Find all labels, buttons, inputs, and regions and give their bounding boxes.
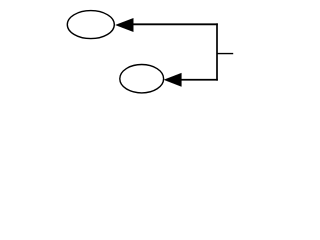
arrowhead into node A: [116, 18, 134, 31]
wire vertical: [216, 23, 218, 80]
arrowhead into node B: [164, 73, 181, 86]
wire stub right: [217, 53, 233, 55]
node B (bottom ellipse): [120, 65, 164, 93]
wire top horizontal: [133, 23, 218, 25]
node A (top ellipse): [67, 11, 114, 39]
wire bottom horizontal: [181, 79, 218, 81]
